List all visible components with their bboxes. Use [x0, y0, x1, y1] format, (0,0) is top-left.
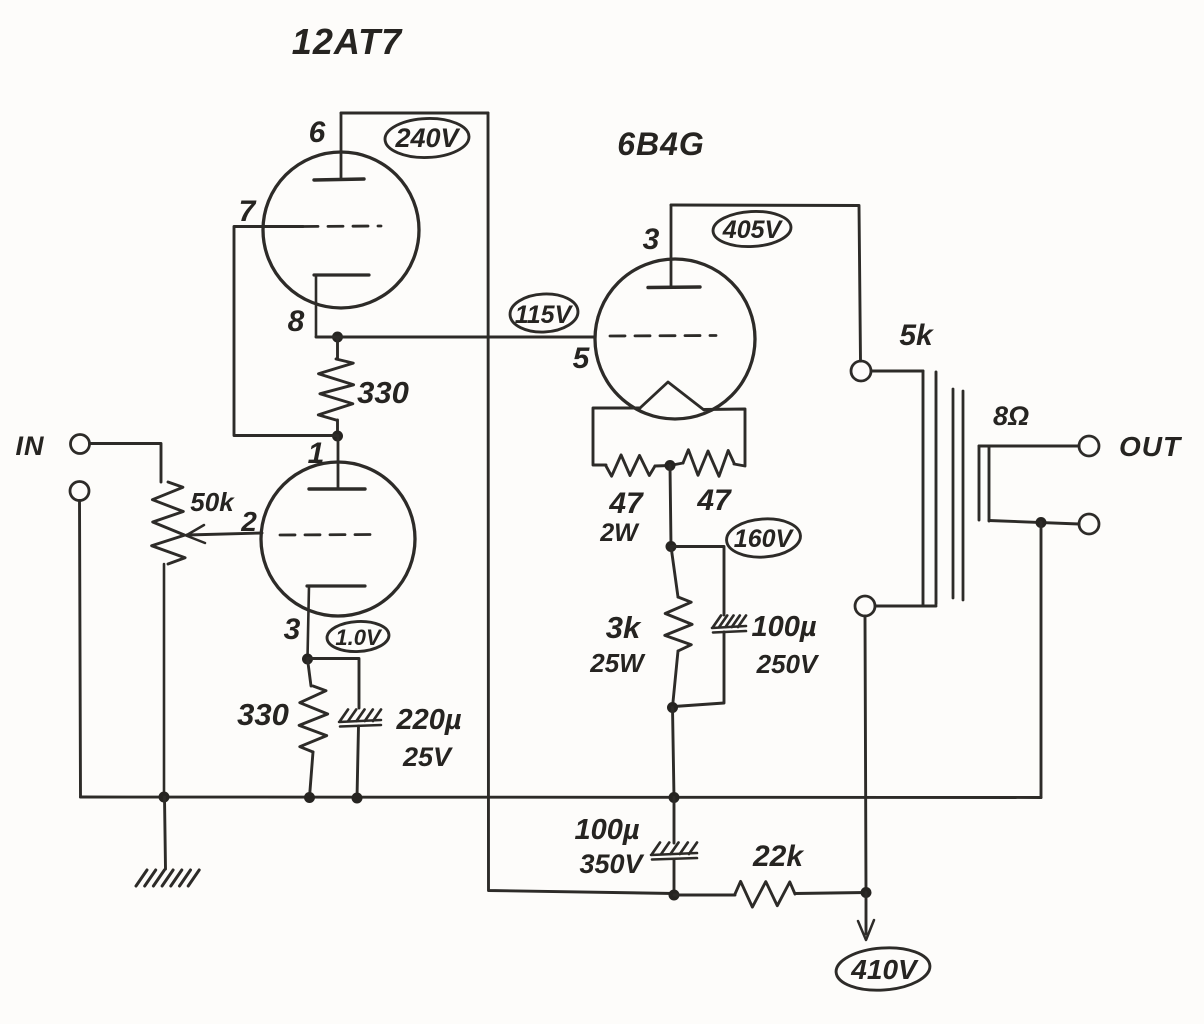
resistor R5 47 (right): [670, 450, 734, 477]
value label 47 2W: [599, 487, 644, 547]
value label 330 (cathode): [237, 697, 289, 732]
triode V1a grid (dashed): [303, 225, 381, 228]
voltage label 160V: [725, 516, 801, 559]
value label 330: [357, 375, 409, 410]
svg-text:3: 3: [643, 223, 660, 256]
transformer T1 primary terminal lower: [855, 596, 875, 616]
svg-text:100µ: 100µ: [751, 611, 816, 643]
pin 6 label: [309, 116, 326, 149]
svg-text:240V: 240V: [394, 123, 460, 153]
wire primary lower to 410V node: [865, 616, 866, 892]
value label 50k: [190, 487, 235, 517]
svg-text:410V: 410V: [850, 954, 919, 985]
wire secondary return to ground rail: [1040, 523, 1043, 798]
voltage label 240V: [384, 117, 469, 159]
voltage label 1.0V: [326, 620, 389, 653]
svg-text:25V: 25V: [402, 742, 453, 772]
triode V1b grid (dashed): [280, 533, 375, 536]
value label 22k: [752, 840, 804, 873]
resistor R6 3k: [665, 547, 692, 708]
svg-text:5k: 5k: [899, 319, 934, 352]
svg-text:3k: 3k: [606, 610, 642, 645]
transformer T1 core lines: [953, 389, 963, 600]
svg-text:330: 330: [237, 697, 289, 732]
tube type label 12AT7: [292, 21, 403, 62]
resistor R4 47 (left): [606, 455, 670, 476]
node C1 bottom on rail: [352, 793, 363, 804]
pin 1 label: [308, 437, 325, 470]
pin 8 label: [288, 305, 305, 338]
triode V2 envelope: [595, 259, 755, 419]
terminal IN lower: [70, 482, 89, 501]
arrow to 410V supply: [858, 893, 874, 941]
svg-text:3: 3: [284, 613, 301, 646]
wire IN lower down to ground rail: [80, 501, 81, 798]
resistor R3 330 cathode: [299, 659, 328, 797]
svg-text:250V: 250V: [756, 649, 820, 679]
svg-text:7: 7: [239, 195, 257, 228]
capacitor C3 100u 350V wires: [673, 798, 676, 896]
wire R6 bottom to ground rail: [673, 708, 675, 798]
potentiometer VR1 50k body: [152, 482, 186, 797]
value label 100u 250V: [751, 611, 820, 679]
pin 3 label (V2 plate): [643, 223, 660, 256]
wire V1a plate to B+ riser: [341, 112, 488, 115]
node filament center tap: [665, 460, 676, 471]
pin 5 label (V2 grid): [573, 342, 591, 375]
value label 100u 350V: [574, 814, 644, 879]
tube type label 6B4G: [617, 126, 705, 162]
ground stem wire: [165, 797, 166, 869]
svg-text:47: 47: [608, 487, 644, 520]
pot wiper arrow: [186, 525, 262, 543]
capacitor C3 100u plates: [651, 843, 697, 860]
svg-text:25W: 25W: [589, 648, 646, 678]
B+ riser wire 240V down to filter node: [488, 113, 674, 894]
pin 3 label: [284, 613, 301, 646]
svg-text:50k: 50k: [190, 487, 235, 517]
value label 220u 25V: [395, 704, 461, 772]
svg-text:220µ: 220µ: [395, 704, 461, 736]
wire 115V node to 6B4G grid: [316, 336, 595, 339]
node secondary return: [1036, 517, 1047, 528]
svg-text:6B4G: 6B4G: [617, 126, 705, 162]
svg-text:405V: 405V: [722, 216, 784, 244]
capacitor C2 100u 250V wires: [671, 547, 724, 707]
triode V2 plate: [648, 205, 700, 288]
svg-text:115V: 115V: [515, 301, 574, 329]
transformer T1 primary terminal upper: [851, 361, 871, 381]
svg-text:1.0V: 1.0V: [335, 625, 383, 650]
triode V2 filament (V): [640, 382, 704, 410]
terminal IN upper: [71, 435, 90, 454]
triode V1b plate: [309, 436, 365, 489]
svg-text:47: 47: [696, 484, 732, 517]
node 410V junction: [861, 887, 872, 898]
voltage label 405V: [712, 209, 792, 248]
svg-text:100µ: 100µ: [574, 814, 639, 846]
impedance label 8 ohm: [993, 401, 1029, 431]
filament return frame wires: [593, 408, 745, 466]
transformer T1 impedance label 5k: [899, 319, 934, 352]
node pot bottom on rail: [159, 792, 170, 803]
svg-text:160V: 160V: [734, 525, 795, 553]
svg-text:350V: 350V: [579, 849, 644, 879]
svg-text:IN: IN: [16, 431, 45, 461]
value label 47: [696, 484, 732, 517]
resistor R2 330 (SRPP): [318, 337, 353, 436]
node 160V: [666, 541, 677, 552]
node R3 bottom on rail: [304, 792, 315, 803]
node V1b plate / R2 bottom: [332, 431, 343, 442]
svg-text:330: 330: [357, 375, 409, 410]
node B+ 240V feed (C3 bottom): [669, 890, 680, 901]
transformer T1 secondary winding: [979, 446, 1079, 524]
svg-text:12AT7: 12AT7: [292, 21, 403, 62]
wire V2 plate to OPT primary top: [671, 205, 861, 361]
value label 3k 25W: [589, 610, 646, 678]
terminal OUT lower: [1079, 514, 1099, 534]
terminal OUT upper: [1079, 436, 1099, 456]
wire IN upper to pot top: [90, 444, 162, 483]
voltage label 410V: [835, 945, 932, 993]
svg-text:8: 8: [288, 305, 305, 338]
capacitor C2 100u plates: [712, 616, 746, 633]
resistor R7 22k: [674, 881, 866, 907]
svg-text:OUT: OUT: [1119, 431, 1183, 462]
pin 7 label: [239, 195, 257, 228]
triode V2 grid (dashed): [610, 334, 716, 337]
label OUT: [1119, 431, 1183, 462]
label IN: [16, 431, 45, 461]
pin 2 label: [240, 506, 257, 537]
svg-text:6: 6: [309, 116, 326, 149]
node cathode return on rail: [669, 792, 680, 803]
wire center tap down to 160V node: [670, 466, 671, 547]
capacitor C1 220u plates: [339, 710, 381, 727]
svg-text:1: 1: [308, 437, 325, 470]
svg-text:22k: 22k: [752, 840, 804, 873]
ground symbol hatches: [136, 870, 199, 886]
node SRPP output / V1a cathode: [332, 332, 343, 343]
voltage label 115V: [509, 292, 579, 334]
wire V1a grid to V1b plate node: [234, 227, 338, 436]
triode V1a envelope: [263, 152, 419, 308]
svg-text:8Ω: 8Ω: [993, 401, 1029, 431]
triode V1a plate: [314, 113, 364, 180]
triode V1b envelope: [261, 462, 415, 616]
transformer T1 primary winding: [871, 371, 936, 606]
node R6 bottom: [667, 702, 678, 713]
triode V1a cathode: [314, 275, 369, 336]
node V1b cathode: [302, 654, 313, 665]
triode V1b cathode: [307, 586, 365, 658]
svg-text:5: 5: [573, 342, 591, 375]
capacitor C1 220u wires: [308, 659, 360, 799]
ground rail (bottom bus): [81, 796, 1042, 799]
svg-text:2W: 2W: [599, 519, 640, 547]
